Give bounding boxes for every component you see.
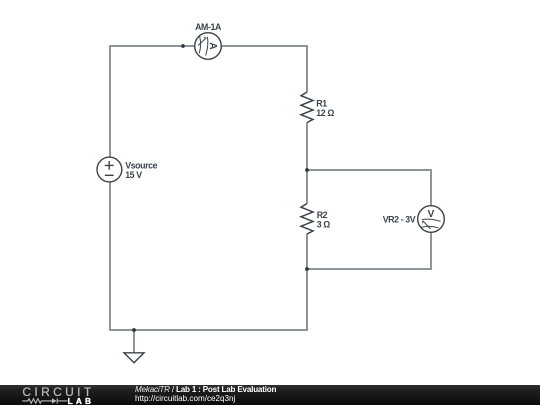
svg-text:A: A	[207, 42, 218, 49]
svg-text:R1: R1	[316, 99, 327, 109]
svg-text:V: V	[428, 209, 435, 220]
svg-text:3 Ω: 3 Ω	[317, 220, 331, 230]
svg-text:LAB: LAB	[68, 395, 95, 405]
svg-text:15 V: 15 V	[125, 170, 142, 180]
svg-text:R2: R2	[317, 210, 328, 220]
svg-text:12 Ω: 12 Ω	[316, 108, 334, 118]
svg-text:AM-1A: AM-1A	[195, 22, 222, 32]
svg-text:VR2 - 3V: VR2 - 3V	[383, 214, 416, 224]
svg-text:Vsource: Vsource	[125, 160, 157, 170]
